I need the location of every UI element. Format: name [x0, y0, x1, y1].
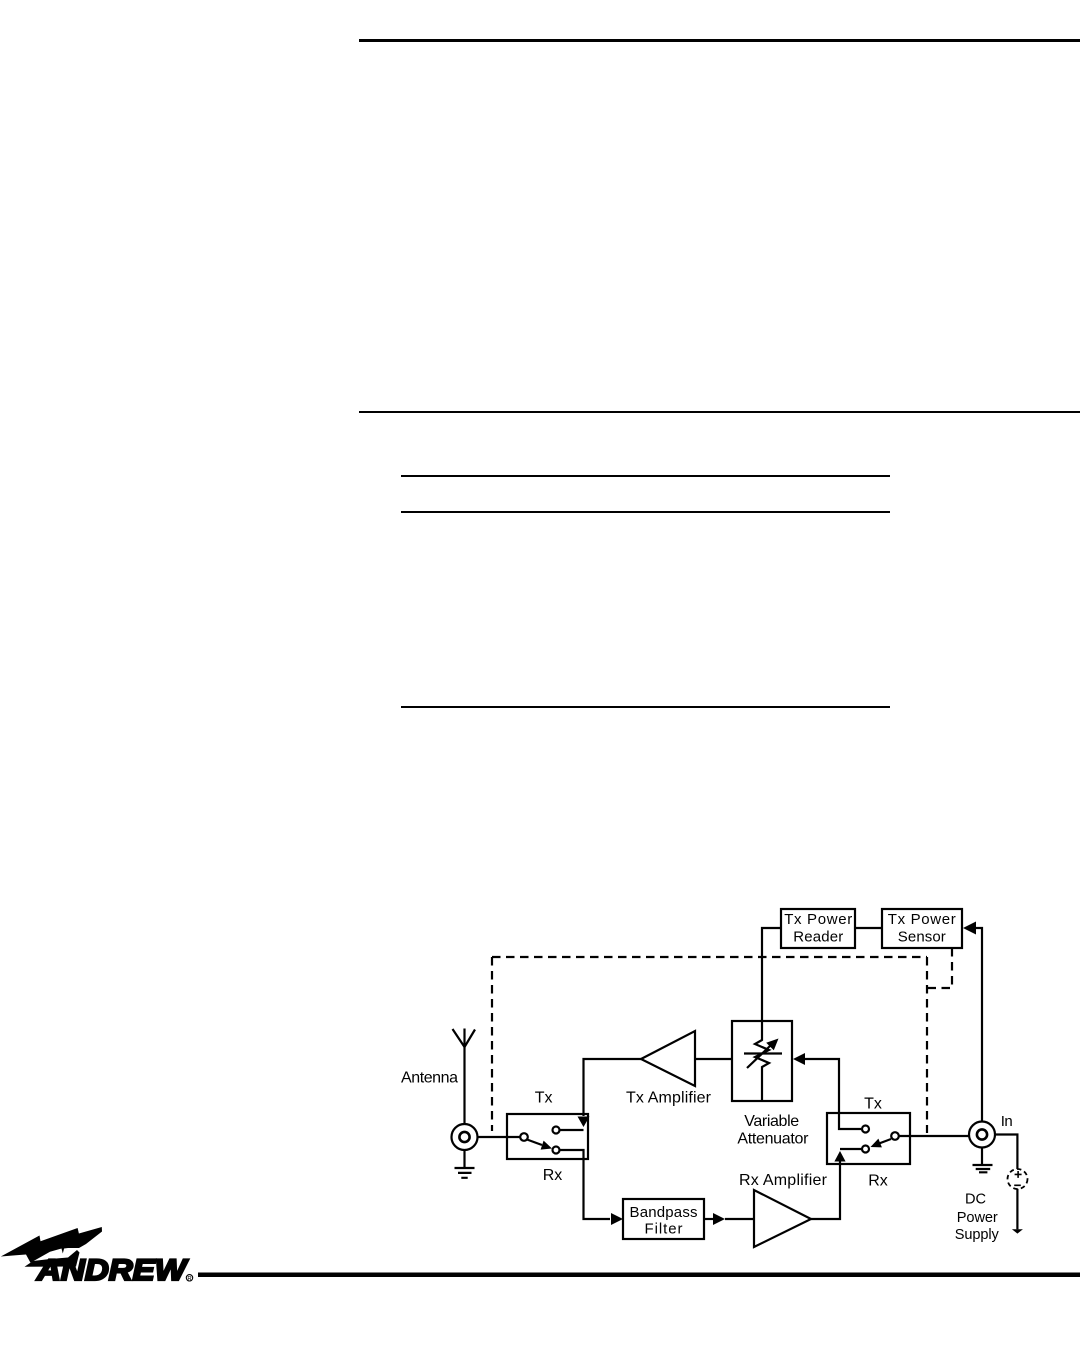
svg-text:Tx Power: Tx Power — [784, 911, 852, 928]
svg-text:Tx: Tx — [864, 1096, 882, 1113]
svg-text:R: R — [187, 1276, 192, 1282]
svg-text:DC: DC — [965, 1192, 986, 1208]
svg-text:Tx Amplifier: Tx Amplifier — [626, 1090, 712, 1107]
svg-text:Supply: Supply — [955, 1227, 1000, 1243]
svg-text:Antenna: Antenna — [401, 1070, 458, 1087]
svg-text:Tx: Tx — [535, 1089, 553, 1106]
svg-text:Attenuator: Attenuator — [737, 1131, 809, 1148]
svg-text:Rx: Rx — [868, 1173, 888, 1190]
svg-text:Sensor: Sensor — [898, 929, 946, 946]
svg-text:In: In — [1001, 1113, 1013, 1130]
svg-text:Bandpass: Bandpass — [630, 1204, 698, 1221]
svg-text:Power: Power — [957, 1210, 998, 1226]
svg-text:Rx Amplifier: Rx Amplifier — [739, 1172, 828, 1189]
svg-text:Rx: Rx — [543, 1167, 563, 1184]
svg-text:Reader: Reader — [793, 929, 843, 946]
svg-text:Tx Power: Tx Power — [888, 911, 956, 928]
svg-text:ANDREW: ANDREW — [36, 1254, 189, 1287]
svg-text:Variable: Variable — [744, 1113, 799, 1130]
svg-text:Filter: Filter — [645, 1221, 683, 1238]
